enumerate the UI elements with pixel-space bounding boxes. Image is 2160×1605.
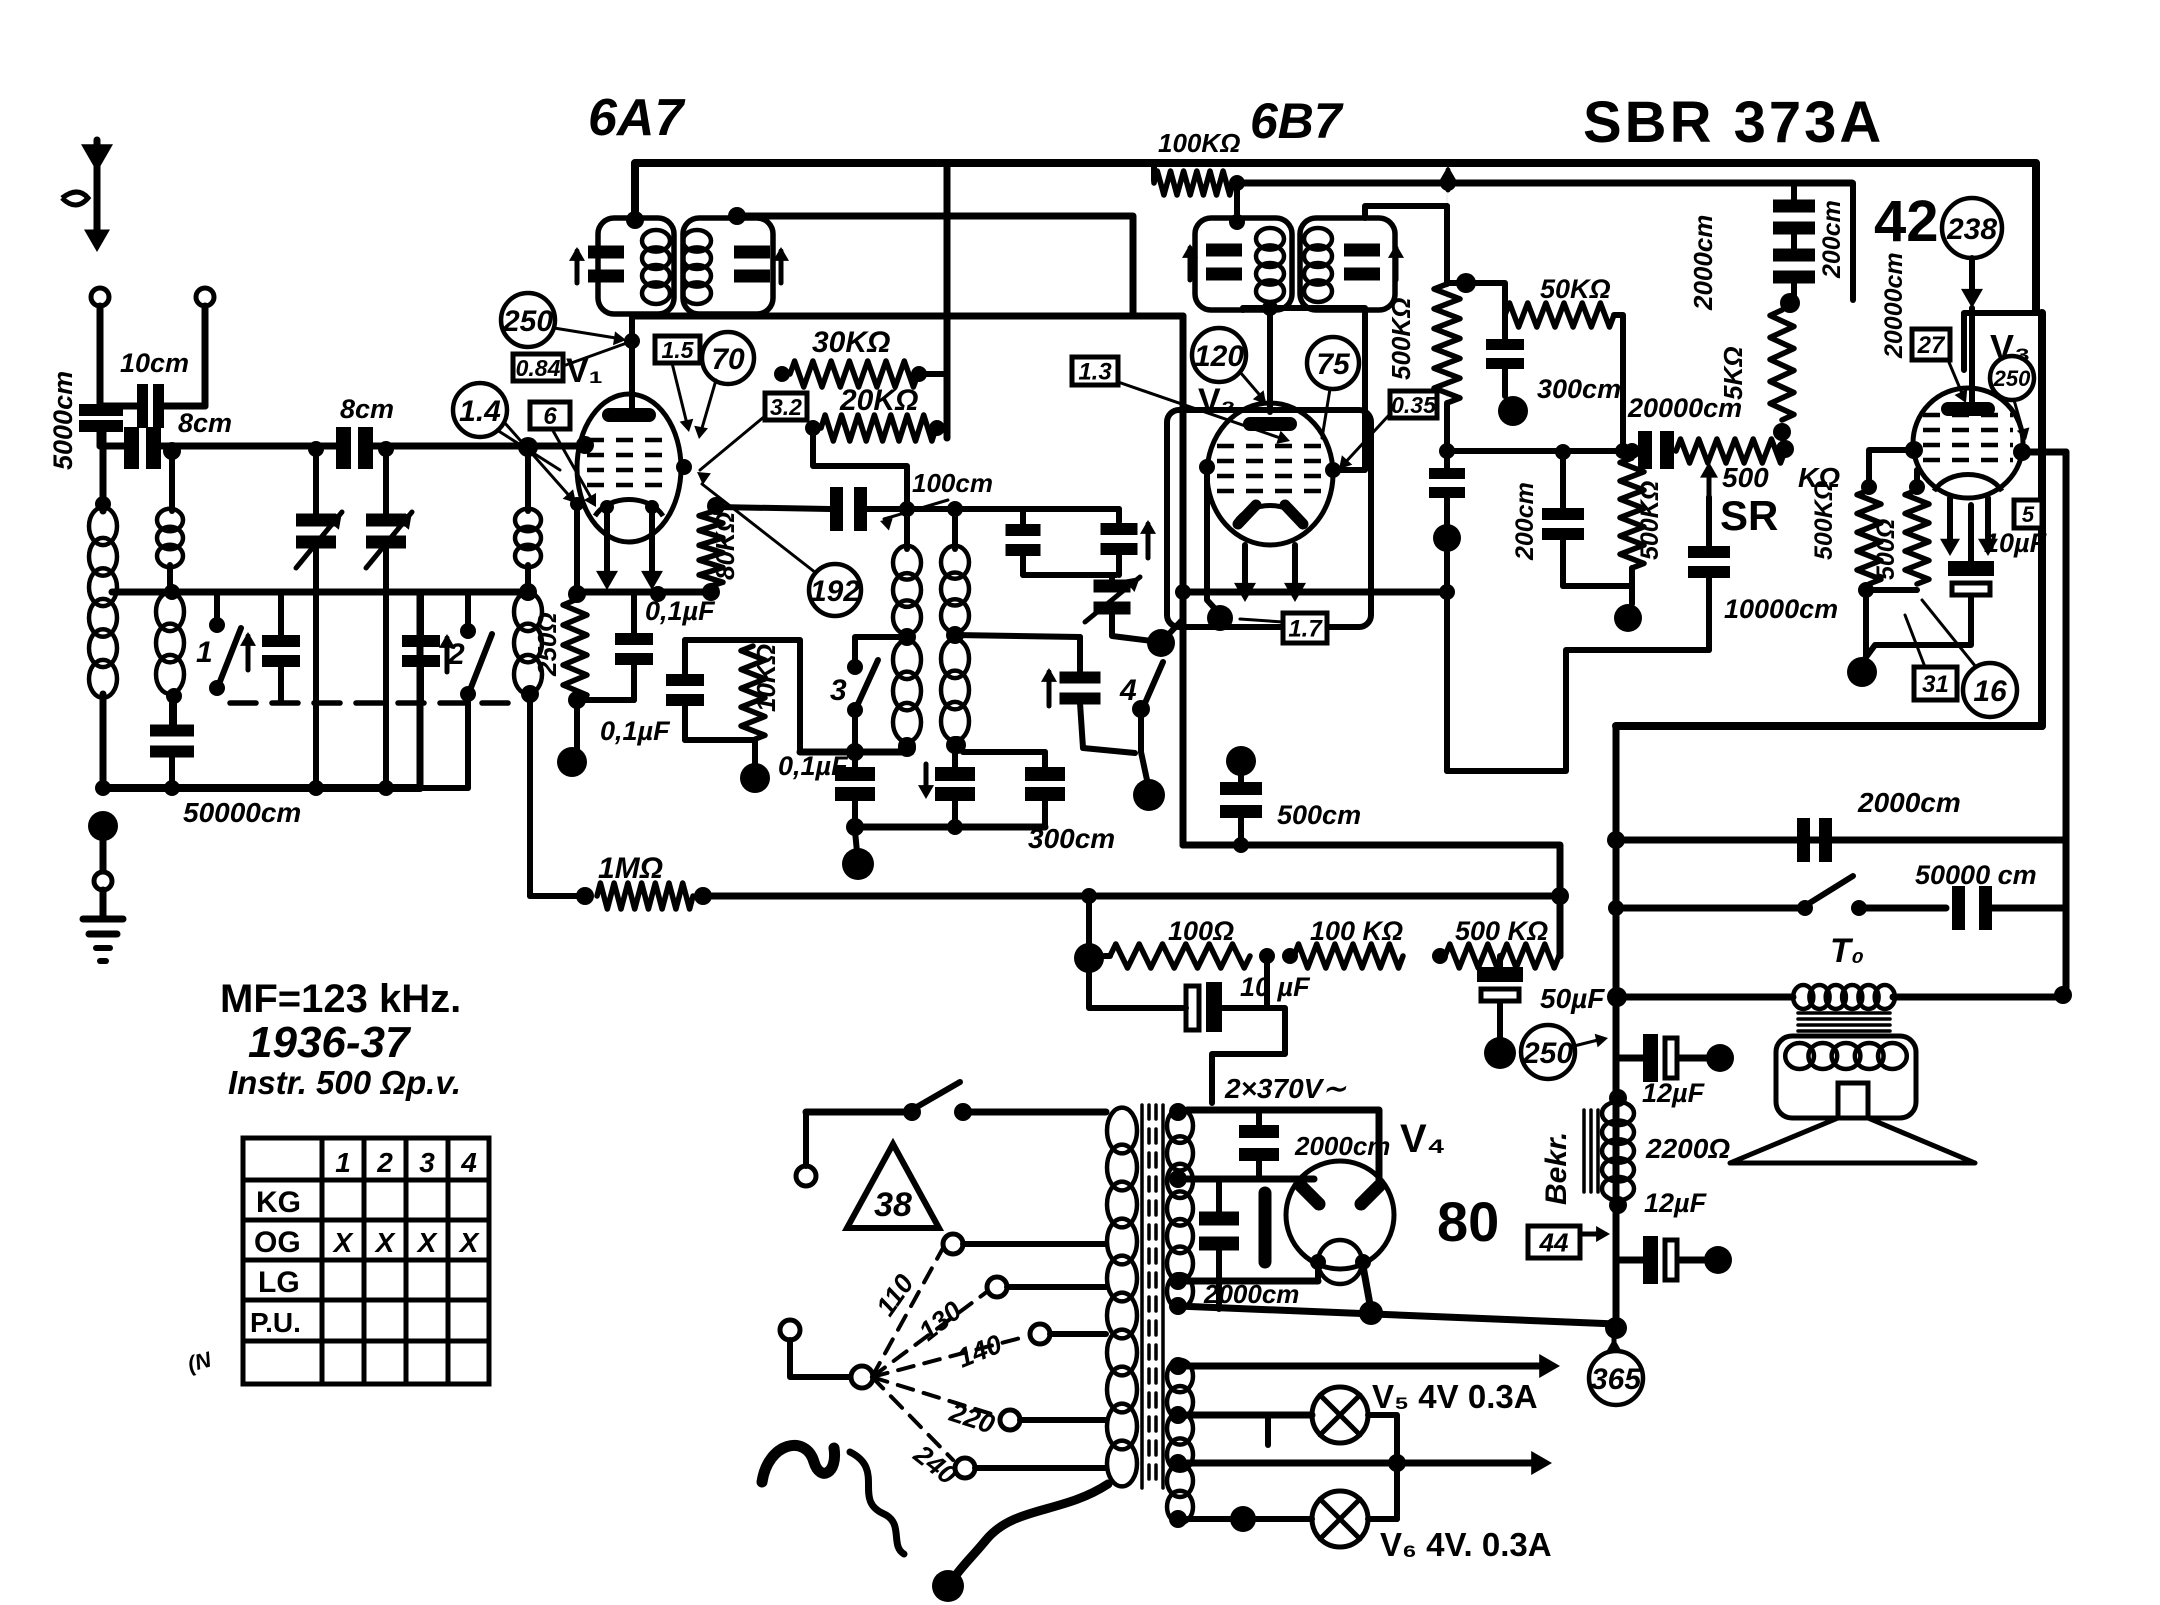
coil antenna primary L1	[95, 496, 111, 512]
capacitor 50000cm tone	[1952, 886, 1965, 930]
node T1 sec top	[728, 207, 746, 225]
node coil A tap	[898, 628, 916, 646]
svg-text:10 µF: 10 µF	[1240, 972, 1311, 1002]
wire to chassis blob	[574, 700, 580, 750]
svg-text:V₅ 4V 0.3A: V₅ 4V 0.3A	[1372, 1378, 1538, 1415]
svg-text:0,1µF: 0,1µF	[600, 716, 671, 746]
svg-text:500: 500	[1722, 462, 1769, 493]
svg-text:30KΩ: 30KΩ	[812, 326, 890, 359]
svg-text:500 KΩ: 500 KΩ	[1455, 916, 1548, 946]
svg-text:1: 1	[196, 636, 213, 669]
capacitor band switch 1	[278, 592, 284, 636]
svg-text:50KΩ: 50KΩ	[1540, 274, 1611, 304]
svg-text:1.5: 1.5	[662, 337, 695, 363]
boxed 31	[1914, 667, 1957, 700]
V2 anode bars	[1238, 505, 1256, 524]
boxed 5	[2014, 500, 2042, 528]
triangle warning 38	[847, 1144, 939, 1228]
svg-text:3.2: 3.2	[770, 394, 802, 420]
wire screen bus y216	[735, 216, 1133, 316]
capacitor 8cm first	[124, 427, 139, 469]
node L2 bottom	[166, 688, 182, 704]
svg-text:500KΩ: 500KΩ	[1810, 481, 1838, 560]
capacitor 300cm screen	[1502, 315, 1508, 340]
boxed 0.84	[513, 354, 563, 381]
coil secondary HV	[1167, 1109, 1193, 1143]
svg-text:44: 44	[1539, 1227, 1569, 1257]
node bus junctions	[95, 780, 111, 796]
svg-text:2: 2	[447, 638, 465, 671]
svg-text:8cm: 8cm	[340, 394, 394, 424]
svg-text:5KΩ: 5KΩ	[1718, 346, 1748, 400]
terminal earth post	[196, 288, 214, 306]
svg-text:2000cm: 2000cm	[1688, 215, 1718, 311]
node blob avc	[1614, 604, 1642, 632]
terminal tap 240	[955, 1458, 975, 1478]
boxed 3.2	[765, 393, 807, 420]
wire HV top tap	[1169, 1103, 1187, 1121]
svg-text:0.35: 0.35	[1391, 392, 1437, 418]
capacitor 10uF	[1968, 505, 1974, 561]
svg-text:2000cm: 2000cm	[1203, 1279, 1299, 1309]
svg-text:192: 192	[810, 575, 860, 608]
svg-text:75: 75	[1316, 348, 1351, 381]
svg-text:20000cm: 20000cm	[1880, 252, 1908, 359]
circled 365	[1612, 1338, 1617, 1354]
band table	[243, 1138, 489, 1384]
capacitor 12uF lower	[1616, 1257, 1644, 1264]
wire HV mid tap	[1169, 1170, 1187, 1188]
svg-text:16: 16	[1973, 675, 2007, 708]
coil oscillator A upper	[893, 546, 921, 580]
wire T2 sec top to bus	[1365, 206, 1447, 218]
arrow V2 heater left	[1242, 545, 1248, 594]
resistor 100K psu	[1294, 944, 1403, 968]
circled 250 output	[1521, 1025, 1575, 1079]
svg-text:SBR 373A: SBR 373A	[1583, 90, 1884, 155]
mechanical gang dashes	[230, 700, 520, 706]
wire AVC vertical x1183	[1180, 316, 1187, 845]
selector dashes	[872, 1248, 943, 1377]
svg-text:LG: LG	[258, 1266, 300, 1299]
resistor 500K v3	[1857, 490, 1881, 584]
capacitor osc padder	[955, 635, 1080, 637]
node y451 junction	[1439, 443, 1455, 459]
coil secondary heaters	[1167, 1360, 1193, 1392]
node blob v3	[1847, 657, 1877, 687]
node V4 pins	[1310, 1254, 1326, 1270]
wire heater mid	[1169, 1454, 1187, 1472]
resistor 1M	[576, 887, 594, 905]
svg-text:500KΩ: 500KΩ	[1636, 481, 1664, 560]
wire riser from 10K net	[753, 640, 800, 752]
svg-text:2×370V∼: 2×370V∼	[1224, 1073, 1347, 1104]
capacitor 0.1uF osc	[852, 756, 858, 767]
svg-text:4: 4	[1119, 674, 1137, 707]
variable capacitor tuning 2	[366, 514, 406, 527]
svg-text:38: 38	[874, 1186, 912, 1224]
terminal tap 130	[987, 1277, 1007, 1297]
capacitor 300cm mid	[946, 736, 964, 754]
tube V4 80	[1286, 1161, 1394, 1269]
svg-text:100cm: 100cm	[912, 468, 993, 498]
coil antenna secondary L2 upper	[157, 509, 183, 531]
resistor 5K	[1770, 310, 1794, 420]
capacitor 12uF upper	[1616, 1055, 1644, 1062]
capacitor 20000cm series	[1563, 448, 1638, 454]
wire ground bus y788	[103, 784, 420, 792]
capacitor 8cm second	[336, 427, 351, 469]
arrow V1 heater right	[649, 505, 655, 582]
node V1 grid coil tap	[518, 437, 538, 457]
frame V2 lower	[1167, 410, 1371, 627]
node V1 anode side	[676, 459, 692, 475]
resistor 20K	[805, 420, 821, 436]
circled 70	[702, 332, 754, 384]
node V2 grid left	[1199, 459, 1215, 475]
resistor 100 ohm	[1074, 943, 1104, 973]
svg-text:27: 27	[1917, 332, 1946, 359]
switch 3	[855, 637, 907, 663]
capacitor 2000cm chain	[1791, 183, 1797, 203]
node bus link	[1440, 175, 1456, 191]
svg-text:100KΩ: 100KΩ	[1158, 128, 1240, 158]
node coil B tap	[946, 626, 964, 644]
speaker	[1776, 1036, 1916, 1118]
ground	[83, 916, 123, 923]
svg-text:1.4: 1.4	[459, 395, 501, 428]
wire V3 plate out	[2022, 449, 2066, 456]
svg-text:100Ω: 100Ω	[1168, 916, 1234, 946]
terminal tap 220	[1000, 1410, 1020, 1430]
wire second bus (after 100K)	[1237, 180, 1852, 187]
node AVC-y592 junction	[1175, 584, 1191, 600]
svg-text:50000cm: 50000cm	[183, 797, 301, 828]
switch 4	[1132, 700, 1150, 718]
svg-text:4: 4	[460, 1147, 477, 1178]
node blob lamp	[1230, 1506, 1256, 1532]
node blob k2	[740, 763, 770, 793]
svg-text:100 KΩ: 100 KΩ	[1310, 916, 1403, 946]
resistor 250 ohm	[568, 585, 586, 603]
wire riser x420	[417, 592, 424, 788]
node blob k1	[557, 747, 587, 777]
circled 120	[1192, 328, 1246, 382]
node osc big junction	[1147, 629, 1175, 657]
capacitor 0.1uF cathode	[650, 586, 666, 602]
selector squiggle	[850, 1452, 904, 1554]
svg-text:6: 6	[543, 403, 557, 430]
wire lamp V5 right	[1368, 1415, 1397, 1519]
node V1 pins	[570, 497, 584, 511]
coil oscillator B upper	[941, 546, 969, 579]
svg-text:120: 120	[1194, 340, 1244, 373]
wire y592 V1 cathode rail	[577, 589, 711, 596]
resistor 500 ohm	[1909, 479, 1925, 495]
node V3 grid	[1905, 441, 1923, 459]
capacitor grid column	[1444, 403, 1450, 468]
capacitor 300cm right	[963, 749, 1045, 755]
wire second lead	[202, 306, 209, 406]
capacitor 200cm avc	[1560, 452, 1566, 510]
wire main vertical x1616	[1613, 726, 1620, 1318]
svg-text:365: 365	[1591, 1363, 1642, 1396]
svg-text:1936-37: 1936-37	[248, 1018, 412, 1067]
svg-text:Instr. 500 Ωp.v.: Instr. 500 Ωp.v.	[228, 1064, 461, 1101]
arrow V1 heater left	[604, 505, 610, 582]
wire V1 plate riser	[629, 316, 635, 412]
wire top HT bus	[635, 163, 2036, 310]
svg-text:20000cm: 20000cm	[1627, 393, 1742, 423]
capacitor band switch 2	[418, 592, 424, 636]
capacitor 2000cm rect upper	[1256, 1110, 1262, 1128]
svg-text:12µF: 12µF	[1642, 1078, 1706, 1108]
svg-text:238: 238	[1946, 213, 1997, 246]
svg-text:500cm: 500cm	[1277, 800, 1361, 830]
svg-text:200cm: 200cm	[1511, 482, 1539, 561]
plate bar	[1259, 1193, 1272, 1262]
boxed 1.7	[1283, 613, 1327, 643]
wire heater bottom	[1169, 1510, 1187, 1528]
svg-text:10KΩ: 10KΩ	[751, 644, 781, 712]
node T1 top	[626, 211, 644, 229]
svg-text:5000cm: 5000cm	[48, 371, 78, 470]
boxed 6	[530, 402, 570, 429]
node pot right	[1776, 440, 1794, 458]
wire AGC line y592 right	[1183, 589, 1447, 596]
potentiometer 500K SR	[1676, 439, 1785, 463]
arrow 238 to V3	[1969, 258, 1975, 300]
svg-text:70: 70	[711, 343, 745, 376]
node bus join	[1605, 1317, 1627, 1339]
capacitor 2000cm rect lower	[1216, 1179, 1222, 1216]
svg-text:2200Ω: 2200Ω	[1645, 1133, 1730, 1164]
capacitor 5000cm	[79, 404, 123, 416]
node osc coil B top	[947, 501, 963, 517]
node blob switch4	[1133, 779, 1165, 811]
svg-text:X: X	[332, 1227, 355, 1258]
boxed 27	[1912, 329, 1950, 360]
tube V3 42	[1913, 388, 2023, 498]
tube V2 6B7	[1207, 403, 1333, 545]
wire bus link arrow at x1448	[1446, 170, 1451, 190]
wire tone branch	[1616, 905, 1805, 912]
node AGC blob	[1433, 524, 1461, 552]
resistor 500K psu	[1445, 944, 1559, 968]
cord bottom	[954, 1484, 1108, 1578]
circled 250	[501, 293, 555, 347]
node V1 grid entry	[576, 436, 594, 454]
svg-text:80KΩ: 80KΩ	[710, 512, 740, 580]
node L2 y592	[164, 584, 180, 600]
arrow V3 heater left	[1947, 498, 1953, 548]
node 10uF junction	[1259, 948, 1275, 964]
choke Bekr 2200 ohm	[1609, 1089, 1627, 1107]
capacitor 10cm	[100, 403, 137, 410]
wire 100cm right	[867, 506, 1119, 512]
node blob 50uF	[1484, 1037, 1516, 1069]
svg-text:2000cm: 2000cm	[1857, 787, 1961, 818]
switch mains	[796, 1166, 816, 1186]
svg-text:5: 5	[2022, 502, 2035, 527]
svg-text:SR: SR	[1720, 492, 1778, 539]
capacitor 2000cm feedback	[1797, 818, 1810, 862]
capacitor 500cm	[1226, 746, 1256, 776]
node V2 cathode blob	[1207, 605, 1233, 631]
wire plate line y316	[635, 313, 1183, 320]
circled 1.4	[453, 383, 507, 437]
capacitor 100cm	[830, 487, 843, 531]
resistor 50K	[1449, 283, 1505, 315]
svg-text:0.84: 0.84	[516, 355, 561, 381]
lamp V6	[1312, 1491, 1368, 1547]
wire osc lower rail y827	[855, 824, 1045, 831]
wire V2 plate to T2	[1333, 310, 1365, 470]
terminal tap 110	[943, 1234, 963, 1254]
node after 100K	[1229, 175, 1245, 191]
wire 50K right drop	[1614, 315, 1623, 451]
svg-text:300cm: 300cm	[1028, 823, 1115, 854]
node V2 right	[1325, 462, 1341, 478]
svg-text:1.7: 1.7	[1288, 616, 1323, 643]
node L3 y592	[519, 583, 537, 601]
svg-text:6A7: 6A7	[588, 89, 685, 147]
boxed 1.5	[655, 336, 700, 363]
capacitor 50uF	[1497, 956, 1503, 968]
frame V3	[1964, 313, 2042, 370]
svg-text:42: 42	[1874, 189, 1939, 254]
wire AVC bottom y845	[1183, 845, 1560, 956]
wire frame bottom	[1616, 722, 2042, 730]
IF transformer T2 primary	[1234, 183, 1240, 222]
wire speaker line	[1616, 994, 1793, 1001]
svg-text:50000 cm: 50000 cm	[1915, 860, 2037, 890]
svg-text:10µF: 10µF	[1984, 528, 2048, 558]
svg-text:200cm: 200cm	[1818, 200, 1846, 279]
variable capacitor tuning 1	[296, 514, 336, 527]
wire 2000cm feedback	[1616, 837, 2066, 844]
svg-text:1MΩ: 1MΩ	[598, 852, 663, 885]
resistor 100K top	[1151, 163, 1157, 181]
node blob 300cm	[1498, 396, 1528, 426]
circled 250 v3	[1990, 356, 2034, 400]
wire band line y592	[112, 589, 528, 596]
svg-text:31: 31	[1922, 671, 1949, 698]
wire 365 line	[1169, 1357, 1187, 1375]
switch 2	[465, 592, 471, 627]
coil L2 lower	[156, 592, 184, 631]
wire bus drop x1856	[1850, 183, 1856, 300]
coil L3 lower	[514, 592, 542, 631]
svg-text:X: X	[374, 1227, 397, 1258]
node coil A bottom	[898, 737, 916, 755]
switch 1	[214, 592, 220, 621]
coil output transformer primary	[1793, 985, 1813, 1009]
wire trimmer link y575	[1023, 572, 1116, 578]
capacitor 200cm chain	[1773, 249, 1815, 262]
arrow V3 heater right	[1985, 498, 1991, 548]
svg-text:2: 2	[376, 1147, 393, 1178]
node y592 end	[1439, 584, 1455, 600]
wire cathode to tube	[574, 504, 580, 592]
svg-text:P.U.: P.U.	[250, 1307, 301, 1338]
capacitor 10000cm	[1706, 497, 1712, 548]
svg-text:V₄: V₄	[1400, 1117, 1446, 1161]
svg-text:20KΩ: 20KΩ	[839, 384, 918, 417]
core output transformer	[1798, 1011, 1890, 1015]
resistor 10K network	[685, 637, 753, 643]
arrow 44	[1582, 1232, 1604, 1237]
svg-text:300cm: 300cm	[1537, 374, 1621, 404]
svg-text:250: 250	[1522, 1037, 1573, 1070]
circled 16	[1963, 663, 2017, 717]
node tuning cap 2 tap	[378, 441, 394, 457]
svg-text:10cm: 10cm	[120, 348, 189, 378]
transformer mains	[1107, 1108, 1137, 1154]
wire HV centre tap	[1212, 1008, 1285, 1103]
svg-text:V₂: V₂	[1198, 382, 1236, 420]
resistor 500K grid	[1434, 284, 1460, 403]
wire L1 bottom	[100, 694, 107, 788]
svg-text:80: 80	[1437, 1190, 1499, 1253]
lamp V5	[1312, 1387, 1368, 1443]
svg-text:250: 250	[502, 305, 553, 338]
wire V4 cathode left	[1315, 1266, 1321, 1281]
IF transformer T2 secondary	[1300, 218, 1395, 310]
svg-text:250Ω: 250Ω	[532, 612, 562, 677]
wire V4 output	[1363, 1266, 1371, 1310]
wire B+ bus y1312	[1178, 1306, 1616, 1324]
svg-text:3: 3	[830, 674, 847, 707]
svg-text:10000cm: 10000cm	[1724, 594, 1838, 624]
tube V1 6A7	[577, 394, 681, 542]
wire T2 bottoms	[1240, 308, 1246, 310]
capacitor 10uF psu	[1089, 958, 1186, 1008]
svg-text:250: 250	[1993, 366, 2031, 391]
resistor 500K avc	[1624, 443, 1640, 459]
wire osc grid line y507	[716, 507, 830, 509]
svg-text:500Ω: 500Ω	[1872, 519, 1900, 580]
cord squiggle bold	[762, 1445, 835, 1482]
arrow SR wiper	[1707, 468, 1712, 497]
svg-text:X: X	[416, 1227, 439, 1258]
wire antenna line y446	[100, 443, 124, 450]
boxed 0.35	[1390, 391, 1437, 418]
wire antenna lead	[97, 306, 104, 404]
svg-text:V₁: V₁	[566, 352, 603, 390]
terminal antenna post	[91, 288, 109, 306]
wire stub	[1265, 1415, 1271, 1445]
svg-text:OG: OG	[254, 1226, 301, 1259]
switch tone	[1797, 900, 1813, 916]
svg-text:6B7: 6B7	[1250, 93, 1344, 149]
svg-text:X: X	[458, 1227, 481, 1258]
svg-text:1.3: 1.3	[1078, 359, 1112, 386]
antenna	[94, 140, 101, 244]
svg-text:2000cm: 2000cm	[1294, 1131, 1390, 1161]
svg-text:V₆ 4V. 0.3A: V₆ 4V. 0.3A	[1380, 1526, 1552, 1563]
coil oscillator B lower	[941, 639, 969, 678]
svg-text:12µF: 12µF	[1644, 1188, 1708, 1218]
node osc coil A top	[899, 501, 915, 517]
circled 238	[1942, 198, 2002, 258]
svg-text:0,1µF: 0,1µF	[645, 596, 716, 626]
boxed 44	[1528, 1226, 1580, 1258]
svg-text:MF=123 kHz.: MF=123 kHz.	[220, 977, 461, 1021]
variable capacitor osc	[1109, 575, 1115, 581]
svg-text:Bekr.: Bekr.	[1540, 1132, 1573, 1205]
svg-text:500KΩ: 500KΩ	[1386, 298, 1416, 380]
